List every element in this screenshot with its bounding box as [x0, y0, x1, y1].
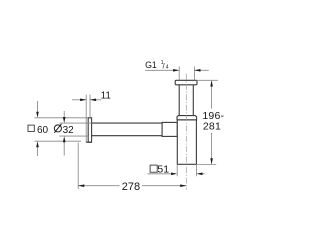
horizontal pipe diameter 32	[92, 122, 162, 124]
wall flange plate (square 60)	[88, 118, 91, 142]
dimension diameter 32 arrows	[63, 111, 66, 156]
label square 51	[150, 164, 169, 176]
extension line left for 278	[77, 143, 79, 189]
label G1 1/4	[145, 60, 169, 71]
wall reference line	[85, 95, 87, 142]
extension line for dimension 11 (right)	[89, 95, 91, 118]
extension lines for square 60	[35, 117, 88, 119]
label diameter 32	[54, 124, 61, 133]
svg-text:G1: G1	[145, 60, 157, 70]
svg-text:278: 278	[122, 181, 140, 193]
bottle body (square 51)	[177, 120, 196, 165]
svg-text:/: /	[163, 61, 165, 70]
G1 leader line with arrow	[145, 69, 178, 71]
vertical center line	[185, 74, 187, 190]
top escutcheon flange	[175, 80, 197, 85]
thread extension lines G1 1/4	[178, 67, 180, 81]
svg-text:281: 281	[203, 121, 221, 133]
compression nut at bottle inlet	[162, 122, 177, 136]
dimension square 51	[148, 164, 205, 176]
svg-text:4: 4	[166, 64, 169, 70]
extension line bottom for 196-281	[197, 164, 217, 166]
extension lines for diameter 32	[60, 122, 93, 124]
dimension 196-281	[202, 80, 224, 164]
collar nut on bottle top	[177, 116, 197, 120]
dimension 278	[78, 181, 186, 193]
G1 right arrow	[195, 69, 209, 71]
extension line top for 196-281	[197, 79, 218, 81]
vertical tailpipe	[178, 85, 180, 116]
label square 60	[28, 125, 49, 136]
svg-text:60: 60	[37, 125, 49, 136]
dimension square 60 arrows	[36, 101, 39, 156]
dimension 11	[72, 91, 111, 102]
svg-text:11: 11	[101, 91, 112, 102]
svg-text:32: 32	[63, 125, 75, 136]
